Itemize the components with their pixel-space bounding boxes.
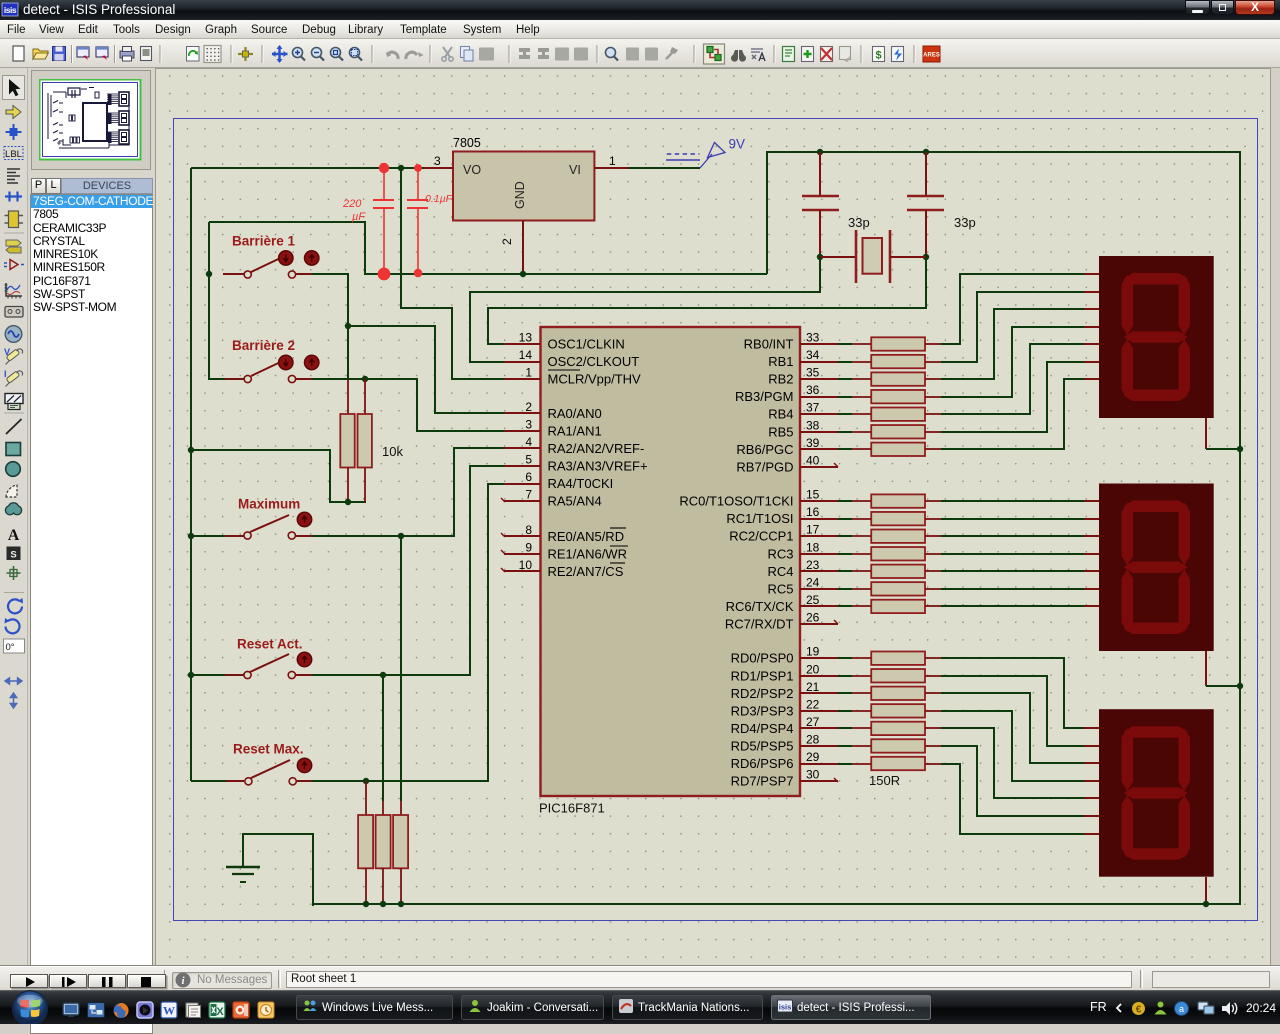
pin 38 RB5 (768, 418, 838, 439)
switch Reset Max (SW-SPST-MOM) (224, 742, 312, 785)
pin 22 RD3/PSP3 (731, 697, 838, 718)
wire ResetMax output (312, 484, 504, 781)
junction R18 bottom (380, 901, 386, 907)
junction R2 top (362, 376, 368, 382)
junction display1 cathode (1237, 446, 1243, 452)
svg-text:Reset Act.: Reset Act. (237, 637, 303, 652)
wire GND riser to top rail (766, 152, 768, 274)
wire RD0 to display3 segment (941, 658, 1099, 728)
wire RD2 to display3 segment (941, 693, 1099, 763)
svg-text:15: 15 (806, 488, 820, 502)
wire RD1 to display3 segment (941, 676, 1099, 746)
svg-text:RD2/PSP2: RD2/PSP2 (731, 686, 794, 701)
pin 16 RC1/T1OSI (726, 505, 838, 526)
svg-text:RC0/T1OSO/T1CKI: RC0/T1OSO/T1CKI (679, 494, 793, 509)
svg-text:28: 28 (806, 732, 820, 746)
svg-text:RC3: RC3 (767, 546, 793, 561)
svg-text:RB4: RB4 (768, 407, 793, 422)
ground (226, 867, 260, 882)
junction crystal left (817, 254, 823, 260)
junction Barriere1 left on rail2 (206, 271, 212, 277)
pin 1 lead of 7805 (594, 154, 628, 168)
wire RD3 to display3 segment (941, 711, 1099, 781)
pin 3 lead of 7805 (424, 154, 453, 168)
svg-text:RB5: RB5 (768, 424, 793, 439)
junction VO-MCLR node (398, 165, 404, 171)
pin 7 RA5/AN4 (504, 488, 602, 509)
svg-text:22: 22 (806, 697, 820, 711)
svg-text:18: 18 (806, 540, 820, 554)
svg-text:37: 37 (806, 401, 820, 415)
capacitor C2 33p (907, 152, 976, 257)
wire RC2 to display2 segment (941, 535, 1099, 537)
wire display3 cathode (1205, 877, 1207, 904)
wire display2 cathode (1206, 651, 1240, 686)
resistor RB2 150R (838, 355, 941, 368)
wire RB6 to display1 segment (941, 379, 1099, 449)
wire Maximum pulldown branch (400, 536, 402, 801)
pin 36 RB3/PGM (735, 383, 838, 404)
svg-text:220: 220 (342, 198, 362, 210)
svg-text:a: a (1179, 1004, 1184, 1014)
unconnected pin marker RC7 (834, 620, 838, 624)
pin 14 OSC2/CLKOUT (504, 348, 639, 369)
junction 33p cap1 top (817, 149, 823, 155)
svg-text:S: S (10, 550, 16, 561)
pin 13 OSC1/CLKIN (504, 331, 625, 352)
svg-text:Barrière 1: Barrière 1 (232, 234, 296, 249)
op-amp U1 PIC16F871 body (539, 327, 800, 816)
junction C4 top (red) (379, 163, 389, 173)
junction 10k bottoms (345, 499, 351, 505)
svg-text:µF: µF (352, 211, 366, 223)
svg-text:Maximum: Maximum (238, 497, 300, 512)
svg-text:21: 21 (806, 680, 820, 694)
svg-text:$: $ (875, 50, 881, 62)
wire OSC2 net (470, 257, 820, 362)
svg-text:RD3/PSP3: RD3/PSP3 (731, 703, 794, 718)
svg-text:RD7/PSP7: RD7/PSP7 (731, 774, 794, 789)
resistor RC7 150R (838, 600, 941, 613)
wire RC6 to display2 segment (941, 605, 1099, 607)
resistor R2 10k (358, 379, 404, 502)
pin 2 lead of 7805 (500, 220, 523, 274)
pin 5 RA3/AN3/VREF+ (504, 453, 648, 474)
svg-text:9V: 9V (729, 137, 746, 152)
wire RD5 to display3 segment (941, 746, 1099, 816)
junction 33p cap2 top (923, 149, 929, 155)
svg-text:VI: VI (569, 163, 581, 177)
resistor RB5 150R (838, 408, 941, 421)
svg-text:27: 27 (806, 715, 820, 729)
junction ResetMax pulldown branch (363, 778, 369, 784)
svg-text:OSC1/CLKIN: OSC1/CLKIN (548, 337, 625, 352)
display d3 pin stubs (1084, 728, 1099, 834)
wire RD4 to display3 segment (941, 728, 1099, 798)
wire RB1 to display1 segment (941, 292, 1099, 362)
resistor RC3 150R (838, 530, 941, 543)
switch Maximum (SW-SPST-MOM) (223, 497, 312, 540)
svg-text:RA2/AN2/VREF-: RA2/AN2/VREF- (548, 441, 645, 456)
svg-text:RD0/PSP0: RD0/PSP0 (731, 651, 794, 666)
pin 4 RA2/AN2/VREF- (504, 435, 644, 456)
pin 35 RB2 (768, 366, 838, 387)
pin 6 RA4/T0CKI (504, 470, 613, 491)
wire RB0 to display1 segment (941, 274, 1099, 344)
svg-text:19: 19 (806, 645, 820, 659)
pin 26 RC7/RX/DT (725, 610, 838, 631)
svg-text:7805: 7805 (453, 136, 481, 150)
svg-text:RC7/RX/DT: RC7/RX/DT (725, 616, 794, 631)
resistor RB6 150R (838, 425, 941, 438)
resistor R18 pulldown (376, 801, 391, 904)
svg-text:16: 16 (806, 505, 820, 519)
pin 30 RD7/PSP7 (731, 768, 838, 789)
junction ResetAct left (188, 672, 194, 678)
resistor RD3 150R (838, 687, 941, 700)
svg-text:RA5/AN4: RA5/AN4 (548, 494, 602, 509)
capacitor C1 33p (802, 152, 870, 257)
svg-text:39: 39 (806, 436, 820, 450)
resistor R19 pulldown (393, 801, 408, 904)
junction display3 cathode (1203, 901, 1209, 907)
pin 9 RE1/AN6/WR (504, 540, 628, 561)
svg-text:4: 4 (525, 435, 532, 449)
wire ResetMax left link (191, 780, 226, 782)
svg-text:A: A (8, 527, 20, 544)
display d1 pin stubs (1084, 274, 1099, 379)
unconnected pin marker RE2 (501, 568, 505, 572)
junction crystal right (923, 254, 929, 260)
svg-text:RC5: RC5 (767, 581, 793, 596)
junction Maximum pulldown branch (398, 533, 404, 539)
wire 5V left rail vertical (190, 168, 192, 781)
pin 27 RD4/PSP4 (731, 715, 838, 736)
svg-text:0.1µF: 0.1µF (425, 193, 453, 205)
svg-text:€: € (1136, 1005, 1142, 1016)
svg-text:20: 20 (806, 662, 820, 676)
svg-text:RD5/PSP5: RD5/PSP5 (731, 738, 794, 753)
svg-text:36: 36 (806, 383, 820, 397)
svg-text:RC4: RC4 (767, 564, 793, 579)
wire RC5 to display2 segment (941, 588, 1099, 590)
resistor RD7 150R (838, 757, 941, 770)
svg-text:RB1: RB1 (768, 354, 793, 369)
svg-text:1: 1 (609, 154, 616, 168)
pin 17 RC2/CCP1 (729, 523, 838, 544)
wire bottom ground bus (313, 903, 1241, 905)
wire Maximum left link (191, 535, 225, 537)
svg-text:2: 2 (525, 400, 532, 414)
unconnected pin marker RA5 (501, 498, 505, 502)
pin 3 RA1/AN1 (504, 418, 602, 439)
pin 21 RD2/PSP2 (731, 680, 838, 701)
resistor RB4 150R (838, 390, 941, 403)
svg-text:RA4/T0CKI: RA4/T0CKI (548, 476, 614, 491)
svg-text:X: X (216, 1006, 224, 1018)
junction 7805 GND (520, 271, 526, 277)
svg-text:RD4/PSP4: RD4/PSP4 (731, 721, 794, 736)
wire RA0 net (348, 326, 504, 413)
wire RC3 to display2 segment (941, 553, 1099, 555)
pin 15 RC0/T1OSO/T1CKI (679, 488, 838, 509)
svg-text:RE0/AN5/RD: RE0/AN5/RD (548, 529, 625, 544)
svg-text:RA3/AN3/VREF+: RA3/AN3/VREF+ (548, 459, 648, 474)
wire RC4 to display2 segment (941, 570, 1099, 572)
svg-text:RB7/PGD: RB7/PGD (736, 459, 793, 474)
7-seg display D3 (1099, 709, 1214, 877)
pin 1 MCLR/Vpp/THV (504, 366, 641, 387)
pin 18 RC3 (767, 540, 838, 561)
wire top ground rail (766, 151, 1240, 153)
resistor RC6 150R (838, 582, 941, 595)
svg-text:2: 2 (500, 238, 514, 245)
junction ResetAct pulldown branch (380, 672, 386, 678)
svg-text:33p: 33p (954, 215, 976, 230)
crystal X1 (820, 230, 926, 283)
resistor RB1 150R (838, 337, 941, 350)
svg-text:OSC2/CLKOUT: OSC2/CLKOUT (548, 354, 640, 369)
svg-text:10: 10 (519, 558, 533, 572)
wire RB3 to display1 segment (941, 327, 1099, 397)
svg-text:RC1/T1OSI: RC1/T1OSI (726, 511, 793, 526)
wire ResetAct pulldown branch (382, 675, 384, 801)
wire battery to 7805 VI (628, 167, 700, 169)
7-seg display D1 (1099, 256, 1214, 418)
wire GND rail-2 vertical (208, 222, 210, 380)
svg-text:13: 13 (519, 331, 533, 345)
svg-text:Reset Max.: Reset Max. (233, 742, 304, 757)
wire 10k bottom feed (191, 450, 366, 502)
resistor RD4 150R (838, 704, 941, 717)
junction R19 bottom (398, 901, 404, 907)
svg-text:14: 14 (519, 348, 533, 362)
resistor RC5 150R (838, 565, 941, 578)
junction C5 bottom (red) (414, 269, 423, 278)
pin 25 RC6/TX/CK (726, 593, 838, 614)
junction display2 cathode (1237, 683, 1243, 689)
wire RD6 to display3 segment (941, 764, 1099, 834)
wire Barriere2 output (312, 379, 504, 431)
display d2 pin stubs (1084, 501, 1099, 606)
pin 34 RB1 (768, 348, 838, 369)
switch Barriere 2 (SW-SPST) (223, 338, 319, 383)
svg-text:34: 34 (806, 348, 820, 362)
regulator U 7805 body (453, 136, 594, 221)
svg-text:3: 3 (525, 418, 532, 432)
svg-text:RA1/AN1: RA1/AN1 (548, 424, 602, 439)
wire display1 cathode (1206, 418, 1240, 449)
battery BAT1 9V terminal (666, 137, 745, 169)
wire Maximum output (312, 448, 504, 536)
svg-text:7: 7 (525, 488, 532, 502)
pin 33 RB0/INT (744, 331, 838, 352)
svg-text:GND: GND (513, 181, 527, 209)
svg-text:150R: 150R (869, 773, 900, 788)
resistor R1 10k (340, 379, 354, 502)
pin 19 RD0/PSP0 (731, 645, 838, 666)
capacitor C5 0.1uF (selected) (407, 168, 453, 273)
junction C5 top (red) (414, 164, 422, 172)
junction 5V-10k feed (188, 447, 194, 453)
unconnected pin marker RE1 (501, 550, 505, 554)
resistor RC2 150R (838, 512, 941, 525)
wire MCLR net (401, 168, 504, 379)
svg-text:6: 6 (525, 470, 532, 484)
wire ResetAct output (312, 466, 504, 675)
svg-text:5: 5 (525, 453, 532, 467)
pin 24 RC5 (767, 575, 838, 596)
wire OSC1 net (488, 257, 926, 344)
pin 23 RC4 (767, 558, 838, 579)
svg-text:10k: 10k (382, 444, 403, 459)
svg-text:RB0/INT: RB0/INT (744, 337, 794, 352)
svg-text:9: 9 (525, 540, 532, 554)
pin 2 RA0/AN0 (504, 400, 602, 421)
resistor RB7 150R (838, 443, 941, 456)
wire GND top link (209, 222, 767, 274)
unconnected pin marker RE0 (501, 533, 505, 537)
wire RB2 to display1 segment (941, 309, 1099, 379)
svg-text:30: 30 (806, 768, 820, 782)
wire RB4 to display1 segment (941, 344, 1099, 414)
unconnected pin marker RD7 (834, 778, 838, 782)
resistor RD5 150R (838, 722, 941, 735)
junction R17 bottom (363, 901, 369, 907)
wire Barriere2 left link (209, 378, 225, 380)
pin 20 RD1/PSP1 (731, 662, 838, 683)
svg-text:I: I (4, 369, 7, 379)
svg-text:LBL: LBL (5, 149, 22, 160)
svg-text:26: 26 (806, 610, 820, 624)
wire RB5 to display1 segment (941, 362, 1099, 432)
svg-text:RE2/AN7/CS: RE2/AN7/CS (548, 564, 624, 579)
svg-text:RC6/TX/CK: RC6/TX/CK (726, 599, 794, 614)
svg-text:1: 1 (525, 366, 532, 380)
svg-text:ARES: ARES (923, 53, 940, 59)
svg-text:W: W (163, 1004, 175, 1018)
switch Barriere 1 (SW-SPST) (223, 234, 319, 279)
svg-text:0°: 0° (6, 642, 15, 653)
capacitor C4 220uF (selected) (342, 168, 394, 274)
svg-text:RE1/AN6/WR: RE1/AN6/WR (548, 546, 627, 561)
svg-text:33p: 33p (848, 215, 870, 230)
svg-text:RD6/PSP6: RD6/PSP6 (731, 756, 794, 771)
svg-text:3: 3 (434, 154, 441, 168)
svg-text:8: 8 (525, 523, 532, 537)
wire ground stem (243, 834, 313, 906)
pin 28 RD5/PSP5 (731, 732, 838, 753)
wire RC1 to display2 segment (941, 518, 1099, 520)
wire VO 5V rail horizontal (191, 167, 424, 169)
resistor RD2 150R (838, 669, 941, 682)
resistor RC1 150R (838, 494, 941, 507)
svg-text:40: 40 (806, 453, 820, 467)
svg-text:PIC16F871: PIC16F871 (539, 801, 605, 816)
svg-text:isis: isis (779, 1003, 792, 1012)
unconnected pin marker RB7 (834, 463, 838, 467)
pin 10 RE2/AN7/CS (504, 558, 625, 579)
wire RC0 to display2 segment (941, 500, 1099, 502)
wire ResetAct left link (191, 674, 225, 676)
svg-text:25: 25 (806, 593, 820, 607)
svg-text:23: 23 (806, 558, 820, 572)
svg-text:isis: isis (4, 5, 17, 15)
pin 39 RB6/PGC (736, 436, 838, 457)
junction RA0 branch (345, 323, 351, 329)
junction C4 bottom (red) (378, 268, 391, 281)
resistor RD6 150R (838, 739, 941, 752)
svg-text:24: 24 (806, 575, 820, 589)
switch Reset Act (SW-SPST-MOM) (223, 637, 312, 679)
svg-text:29: 29 (806, 750, 820, 764)
resistor RB3 150R (838, 372, 941, 385)
svg-text:RC2/CCP1: RC2/CCP1 (729, 529, 793, 544)
svg-text:33: 33 (806, 331, 820, 345)
svg-text:38: 38 (806, 418, 820, 432)
svg-text:RB2: RB2 (768, 372, 793, 387)
wire Barriere1 output (312, 274, 348, 379)
pin 8 RE0/AN5/RD (504, 523, 626, 544)
7-seg display D2 (1099, 484, 1214, 652)
svg-text:35: 35 (806, 366, 820, 380)
pin 29 RD6/PSP6 (731, 750, 838, 771)
wire display cathode bus (1239, 151, 1241, 904)
svg-text:MCLR/Vpp/THV: MCLR/Vpp/THV (548, 372, 642, 387)
label 150R (869, 773, 900, 788)
resistor RD1 150R (838, 652, 941, 665)
svg-text:RB6/PGC: RB6/PGC (736, 442, 793, 457)
svg-text:VO: VO (463, 163, 481, 177)
svg-text:RD1/PSP1: RD1/PSP1 (731, 668, 794, 683)
resistor RC4 150R (838, 547, 941, 560)
svg-text:RB3/PGM: RB3/PGM (735, 389, 794, 404)
junction Maximum left (188, 533, 194, 539)
svg-text:RA0/AN0: RA0/AN0 (548, 406, 602, 421)
pin 40 RB7/PGD (736, 453, 838, 474)
resistor R17 pulldown (358, 781, 373, 904)
svg-text:17: 17 (806, 523, 820, 537)
pin 37 RB4 (768, 401, 838, 422)
svg-text:Barrière 2: Barrière 2 (232, 338, 295, 353)
